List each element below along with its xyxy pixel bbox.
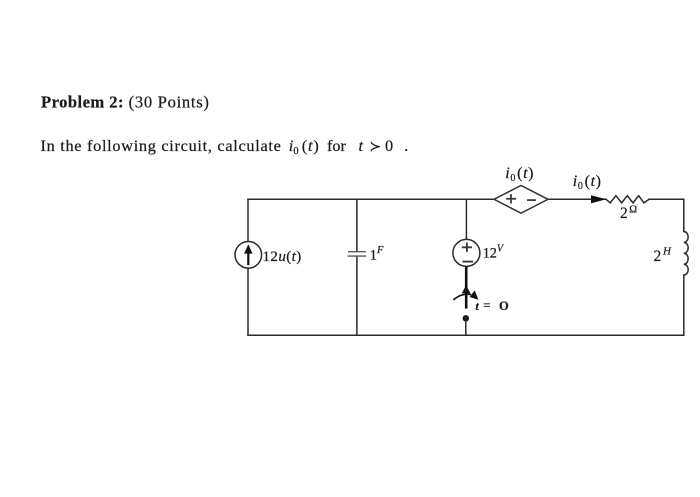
svg-text:i0(t): i0(t) xyxy=(505,165,534,184)
svg-text:t: t xyxy=(476,301,480,313)
svg-text:12V: 12V xyxy=(483,244,505,262)
svg-text:Problem 2:(30 Points): Problem 2:(30 Points) xyxy=(41,92,210,111)
svg-text:In the following circuit, calc: In the following circuit, calculatei0(t)… xyxy=(41,136,409,157)
svg-text:2Ω: 2Ω xyxy=(620,205,637,223)
svg-text:O: O xyxy=(499,299,509,313)
svg-text:12u(t): 12u(t) xyxy=(263,249,302,265)
svg-text:2H: 2H xyxy=(654,246,673,266)
svg-text:1F: 1F xyxy=(370,245,385,264)
svg-text:=: = xyxy=(483,298,490,313)
svg-text:i0(t): i0(t) xyxy=(573,173,602,192)
